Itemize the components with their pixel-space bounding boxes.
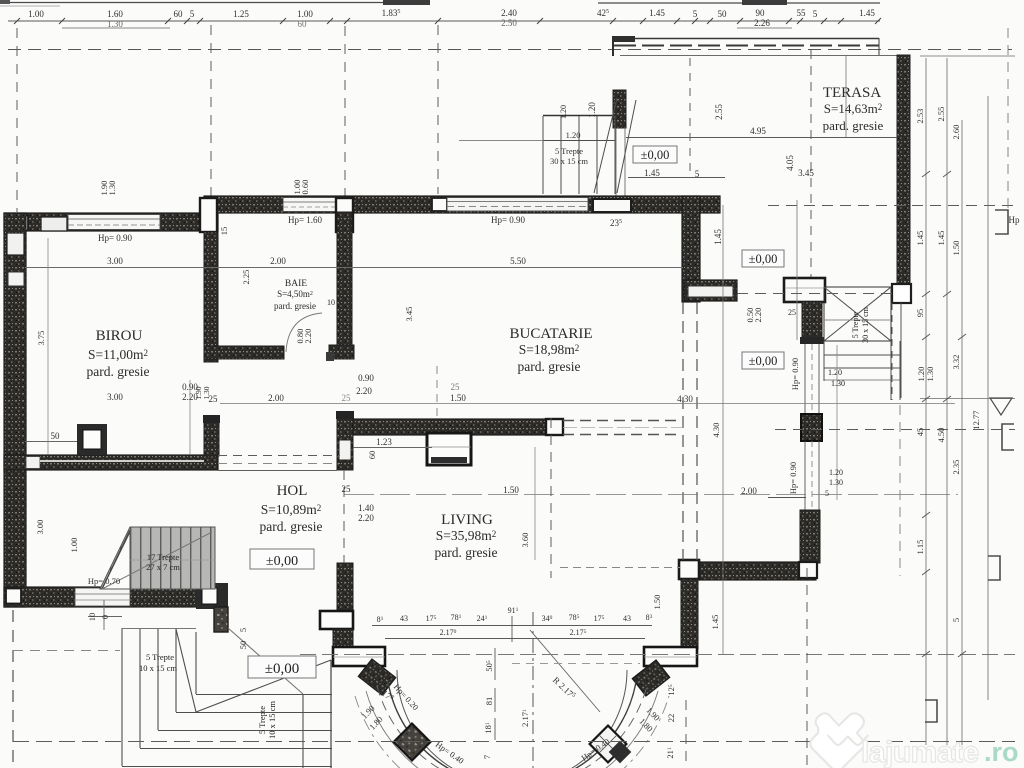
svg-text:4.95: 4.95	[750, 126, 766, 136]
svg-text:S=4,50m2: S=4,50m2	[277, 289, 313, 299]
rotated dimension texts interior	[35, 105, 800, 649]
bay center vertical dashed	[532, 612, 534, 768]
svg-text:1.23: 1.23	[376, 437, 392, 447]
interior stair 5 trepte (top)	[459, 98, 636, 194]
right edge rotated dim texts	[915, 107, 981, 623]
svg-text:2.40: 2.40	[501, 8, 517, 18]
svg-text:1.20: 1.20	[566, 130, 581, 140]
svg-text:S=11,00m2: S=11,00m2	[88, 347, 148, 362]
svg-text:Hp= 1.60: Hp= 1.60	[288, 215, 323, 225]
label living	[435, 512, 498, 560]
svg-text:1.25: 1.25	[233, 9, 249, 19]
svg-text:3.00: 3.00	[35, 520, 45, 535]
svg-text:30 x 15 cm: 30 x 15 cm	[861, 306, 870, 343]
svg-text:1.60: 1.60	[107, 9, 123, 19]
svg-text:17 Trepte: 17 Trepte	[147, 552, 180, 562]
svg-text:5.50: 5.50	[510, 256, 526, 266]
watermark logo heart-W	[810, 713, 867, 768]
vertical dim chain x=723	[722, 205, 724, 655]
living south wall west pillar	[679, 560, 699, 579]
svg-text:22: 22	[666, 714, 676, 723]
svg-text:1.50: 1.50	[450, 393, 466, 403]
vertical dim line hol	[189, 380, 191, 455]
svg-text:2.20: 2.20	[753, 308, 763, 323]
hol west pillar lower	[337, 563, 353, 611]
bay west angled block	[358, 659, 395, 695]
svg-text:1.30: 1.30	[829, 478, 843, 487]
svg-text:10: 10	[327, 298, 335, 307]
svg-text:5: 5	[190, 9, 195, 19]
svg-text:.ro: .ro	[984, 737, 1019, 767]
svg-text:25: 25	[342, 393, 352, 403]
svg-text:2.20: 2.20	[358, 513, 374, 523]
living north wall end pillar	[546, 419, 563, 435]
birou top wall window cell 1	[10, 216, 28, 231]
bay outer dashed arc	[377, 686, 647, 768]
svg-text:5: 5	[825, 489, 829, 498]
svg-text:3.00: 3.00	[107, 256, 123, 266]
svg-text:2.55: 2.55	[936, 107, 946, 122]
svg-text:1.45: 1.45	[710, 615, 720, 630]
label baie	[274, 279, 335, 311]
svg-text:10 x 15 cm: 10 x 15 cm	[139, 663, 177, 673]
svg-text:pard. gresie: pard. gresie	[87, 364, 150, 379]
svg-text:7: 7	[482, 755, 492, 759]
terasa mid vertical line	[845, 56, 847, 137]
east wall pillar cap	[800, 337, 824, 344]
vertical dim line x=535	[534, 447, 536, 560]
dashed axes interior	[13, 206, 1015, 768]
terasa inner top line	[620, 55, 910, 57]
dim line y=403	[220, 403, 955, 405]
rotated step dims left	[359, 682, 466, 766]
small ticks right	[922, 171, 966, 657]
baie/kitchen top wall	[204, 196, 720, 213]
terasa top edge double line	[614, 38, 879, 55]
entrance steps labels	[139, 652, 277, 739]
svg-text:2.50: 2.50	[501, 18, 517, 28]
svg-text:S=14,63m2: S=14,63m2	[824, 101, 882, 116]
svg-text:1.50: 1.50	[951, 241, 961, 256]
svg-text:4.30: 4.30	[677, 394, 693, 404]
svg-text:60: 60	[174, 9, 184, 19]
kitchen east wall	[682, 196, 700, 302]
east wall pillar below terasa	[802, 302, 822, 338]
terasa label	[823, 85, 884, 133]
svg-text:2.00: 2.00	[270, 256, 286, 266]
baie right wall foot	[329, 345, 354, 359]
svg-text:12.77: 12.77	[971, 410, 981, 429]
svg-text:2.35: 2.35	[951, 460, 961, 475]
baie window band	[283, 198, 336, 212]
label bucatarie	[510, 326, 593, 374]
vertical dashed axis lines top area	[17, 25, 811, 302]
svg-text:1.50: 1.50	[652, 595, 662, 610]
svg-text:60: 60	[367, 451, 377, 460]
colonnade dashed lines living/terasa east	[683, 302, 697, 560]
bay east pillar	[681, 579, 698, 649]
birou bottom wall	[4, 455, 218, 470]
svg-text:pard. gresie: pard. gresie	[274, 301, 316, 311]
svg-text:Hp= 0.90: Hp= 0.90	[98, 233, 133, 243]
living south wall	[694, 562, 816, 580]
baie right wall vertical	[337, 212, 352, 348]
svg-text:3.60: 3.60	[520, 533, 530, 548]
hol south wall	[4, 587, 198, 607]
svg-text:30 x 15 cm: 30 x 15 cm	[550, 156, 588, 166]
svg-text:10: 10	[87, 613, 97, 622]
svg-text:50: 50	[238, 641, 248, 650]
low wall below terasa (right)	[892, 303, 901, 400]
svg-text:1.45: 1.45	[713, 229, 723, 245]
kitchen wall pillar w/ window	[593, 199, 631, 212]
hol east pillar (top)	[336, 411, 354, 470]
baie right junction pillar	[336, 198, 353, 232]
label hol	[260, 483, 323, 534]
opening dashes living/terasa	[563, 421, 682, 435]
svg-text:HOL: HOL	[277, 483, 308, 499]
svg-text:1.20: 1.20	[829, 468, 843, 477]
svg-text:1.20: 1.20	[828, 368, 842, 377]
living south wall east pillar	[799, 562, 817, 578]
svg-text:Hp= 0.90: Hp= 0.90	[788, 462, 798, 494]
svg-text:1.30: 1.30	[107, 181, 117, 196]
svg-text:±0,00: ±0,00	[266, 554, 298, 569]
baie bottom wall	[204, 346, 284, 359]
bay west window 2	[333, 647, 385, 666]
svg-text:1.45: 1.45	[644, 168, 660, 178]
svg-text:pard. gresie: pard. gresie	[260, 519, 323, 534]
svg-text:5: 5	[951, 618, 961, 622]
svg-text:±0,00: ±0,00	[265, 661, 299, 677]
bay step arc 3 dashed	[355, 696, 669, 768]
svg-text:50: 50	[718, 9, 728, 19]
level boxes	[248, 250, 784, 678]
birou bottom wall white gaps	[26, 457, 40, 469]
entrance corner pillar	[196, 583, 228, 609]
dimension line top	[8, 21, 880, 28]
dim line 1.23 hol	[353, 447, 432, 449]
svg-text:lajumate: lajumate	[861, 736, 979, 768]
terasa top-left notch	[612, 36, 635, 42]
svg-text:0.90: 0.90	[358, 373, 374, 383]
bay step arc 2	[366, 691, 658, 768]
svg-text:5: 5	[238, 628, 248, 632]
west wall lower window cell	[7, 455, 24, 470]
dim line y=267	[25, 267, 683, 269]
svg-text:5 Trepte: 5 Trepte	[257, 706, 267, 734]
svg-text:1.30: 1.30	[202, 386, 211, 399]
svg-text:2.53: 2.53	[915, 109, 925, 124]
svg-text:1.45: 1.45	[915, 231, 925, 246]
svg-text:4.50: 4.50	[936, 428, 946, 443]
svg-text:2.26: 2.26	[754, 18, 770, 28]
svg-text:±0,00: ±0,00	[749, 252, 778, 266]
vertical rotated dims center bay	[482, 660, 676, 759]
bay west wall piece	[333, 629, 353, 649]
svg-text:25: 25	[342, 484, 352, 494]
svg-text:BAIE: BAIE	[285, 279, 307, 289]
terasa SW pillar w/ window	[784, 278, 825, 302]
svg-text:4.05: 4.05	[785, 155, 795, 171]
svg-text:1.00: 1.00	[297, 9, 313, 19]
svg-text:50: 50	[51, 431, 61, 441]
svg-text:1.00: 1.00	[28, 9, 44, 19]
tick marks on top dim line	[14, 18, 881, 24]
vertical dim line birou	[47, 238, 49, 455]
svg-text:1.45: 1.45	[649, 8, 665, 18]
vertical dim chain x=797	[796, 200, 798, 340]
vertical line 10/0	[88, 616, 122, 618]
bay dimension row	[372, 616, 652, 642]
svg-text:43: 43	[623, 614, 631, 623]
svg-text:±0,00: ±0,00	[749, 354, 778, 368]
pillar right end of birou bottom wall	[204, 416, 219, 456]
terasa west edge glass lines	[616, 128, 625, 196]
svg-text:1.50: 1.50	[503, 485, 519, 495]
svg-text:±0,00: ±0,00	[641, 148, 670, 162]
top border thick marks	[383, 0, 430, 5]
svg-text:5: 5	[813, 9, 818, 19]
junction pillar birou/baie	[200, 198, 217, 232]
svg-text:5 Trepte: 5 Trepte	[555, 146, 583, 156]
svg-text:60: 60	[298, 19, 308, 29]
svg-text:81: 81	[484, 697, 494, 706]
svg-text:pard. gresie: pard. gresie	[823, 118, 884, 133]
bay east diamond pillar	[590, 726, 627, 763]
bay east angled block	[632, 660, 669, 696]
stair 17 trepte labels	[146, 552, 180, 572]
svg-text:15: 15	[219, 227, 229, 236]
svg-text:5 Trepte: 5 Trepte	[146, 652, 174, 662]
terasa bottom line 4.95	[626, 137, 897, 139]
east entrance stairs (5 trepte 30x15)	[824, 287, 900, 400]
chimney pillar on birou bottom wall	[77, 424, 107, 455]
fireplace box	[427, 433, 471, 465]
svg-text:1.30: 1.30	[831, 379, 845, 388]
rotated step dims right	[579, 705, 662, 763]
svg-text:1.30: 1.30	[107, 19, 123, 29]
svg-text:S=35,98m2: S=35,98m2	[436, 528, 497, 543]
svg-text:45: 45	[915, 428, 925, 437]
svg-text:3.75: 3.75	[36, 331, 46, 346]
svg-text:25: 25	[451, 382, 461, 392]
svg-text:4.30: 4.30	[711, 423, 721, 438]
svg-text:1.40: 1.40	[358, 503, 374, 513]
west wall window cell	[8, 272, 24, 286]
birou top wall window cell 2	[41, 217, 67, 231]
entrance steps SW nested rects	[122, 628, 332, 768]
svg-text:2.00: 2.00	[268, 393, 284, 403]
svg-text:3.32: 3.32	[951, 355, 961, 370]
svg-text:2.55: 2.55	[714, 104, 724, 120]
east wall mid pillar	[801, 414, 822, 441]
terasa dims	[587, 102, 814, 245]
kitchen SE jut window cells	[688, 286, 733, 297]
svg-text:25: 25	[788, 308, 796, 317]
svg-text:10 x 15 cm: 10 x 15 cm	[267, 701, 277, 739]
svg-text:2.20: 2.20	[356, 386, 372, 396]
svg-text:Hp: Hp	[1009, 215, 1020, 225]
kitchen top wall window cell	[432, 198, 447, 211]
svg-text:2.25: 2.25	[241, 270, 251, 285]
bay west diamond pillar	[394, 724, 431, 761]
bay radius line right	[530, 630, 600, 712]
svg-text:27 x 7 cm: 27 x 7 cm	[146, 562, 180, 572]
section marks right edge	[925, 210, 1014, 722]
dim line y=494 dashed	[344, 494, 958, 496]
vertical dim chain x=837	[836, 345, 838, 500]
level mark terasa	[633, 146, 677, 163]
svg-text:0.60: 0.60	[300, 180, 310, 195]
svg-text:S=18,98m2: S=18,98m2	[519, 342, 580, 357]
svg-text:95: 95	[915, 309, 925, 318]
svg-text:Hp= 0.70: Hp= 0.70	[88, 576, 120, 586]
terasa right wall window pillar	[892, 284, 911, 303]
birou top wall window band	[68, 215, 160, 230]
west exterior wall	[4, 213, 26, 607]
east wall lower window section	[768, 441, 819, 510]
birou/baie dividing wall (vertical)	[204, 232, 218, 362]
svg-text:5: 5	[693, 9, 698, 19]
birou top wall	[4, 213, 218, 231]
east wall upper window section	[805, 344, 819, 414]
long horizontal dashed line y=49	[8, 49, 1012, 51]
svg-text:1.15: 1.15	[915, 540, 925, 555]
svg-text:1.20: 1.20	[559, 105, 568, 119]
svg-text:0: 0	[100, 615, 110, 619]
svg-text:BIROU: BIROU	[96, 328, 143, 344]
svg-text:3.45: 3.45	[798, 168, 814, 178]
stair 17 trepte (gray)	[100, 527, 215, 589]
svg-text:1.30: 1.30	[925, 367, 935, 382]
svg-text:3.45: 3.45	[404, 307, 414, 322]
bay outer wall arc	[388, 682, 636, 768]
svg-text:2.60: 2.60	[951, 125, 961, 140]
svg-text:1.00: 1.00	[69, 538, 79, 553]
label birou	[87, 328, 150, 379]
svg-text:S=10,89m2: S=10,89m2	[261, 502, 322, 517]
svg-text:5 Trepte: 5 Trepte	[851, 311, 860, 338]
svg-text:TERASA: TERASA	[823, 85, 882, 101]
center tick small lines bay	[494, 648, 496, 740]
svg-text:BUCATARIE: BUCATARIE	[510, 326, 593, 342]
entrance corner step wall	[214, 607, 228, 632]
hol south wall window	[6, 589, 21, 604]
svg-text:Hp= 0.90: Hp= 0.90	[491, 215, 526, 225]
svg-text:3.00: 3.00	[107, 392, 123, 402]
svg-text:LIVING: LIVING	[441, 512, 493, 528]
svg-text:2.00: 2.00	[741, 486, 757, 496]
kitchen long window band	[447, 198, 588, 212]
top border line left	[0, 3, 880, 7]
svg-text:pard. gresie: pard. gresie	[435, 545, 498, 560]
hol south wall opening band	[75, 588, 130, 606]
bay inner arc	[397, 670, 627, 768]
bay east window box	[644, 647, 697, 666]
terasa right wall	[897, 55, 910, 285]
svg-text:Hp= 0.90: Hp= 0.90	[790, 358, 800, 390]
svg-text:30: 30	[681, 258, 690, 266]
svg-text:2.20: 2.20	[303, 329, 313, 344]
bay west window box	[320, 611, 353, 629]
svg-text:1.45: 1.45	[936, 231, 946, 246]
kitchen SE jut wall	[684, 280, 737, 301]
dim line 50 (chimney)	[25, 441, 77, 443]
svg-text:90: 90	[756, 8, 766, 18]
baie door arc	[286, 313, 322, 352]
kitchen wall window cell right	[683, 199, 698, 212]
svg-text:1.45: 1.45	[859, 8, 875, 18]
svg-text:pard. gresie: pard. gresie	[518, 359, 581, 374]
svg-text:43: 43	[400, 614, 408, 623]
east wall lower solid	[800, 510, 820, 563]
top dimension texts	[28, 8, 875, 29]
svg-text:55: 55	[797, 8, 807, 18]
living north wall	[353, 419, 562, 435]
terasa west edge wall stub	[613, 90, 626, 128]
